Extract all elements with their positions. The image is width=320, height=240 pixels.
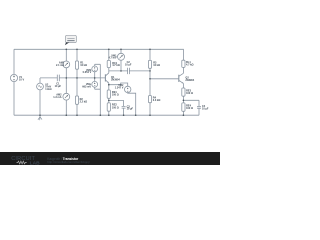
svg-text:10 kΩ: 10 kΩ (153, 64, 160, 67)
svg-text:10 µF: 10 µF (55, 85, 62, 88)
svg-text:1 kHz: 1 kHz (45, 88, 52, 91)
svg-text:100 Ω: 100 Ω (186, 107, 193, 110)
svg-text:LAB: LAB (30, 161, 41, 165)
svg-text:100 Ω: 100 Ω (112, 106, 119, 109)
svg-text:1.347 V: 1.347 V (115, 86, 124, 89)
svg-text:1.3 mA: 1.3 mA (53, 96, 61, 99)
svg-text:2N3904: 2N3904 (111, 79, 120, 82)
svg-text:10 µF: 10 µF (202, 107, 209, 110)
svg-text:10 kΩ: 10 kΩ (80, 64, 87, 67)
svg-text:2.1 mA: 2.1 mA (56, 64, 64, 67)
svg-text:0.654 V: 0.654 V (83, 71, 92, 74)
svg-text:100 Ω: 100 Ω (186, 92, 193, 95)
svg-text:100 Ω: 100 Ω (112, 94, 119, 97)
svg-text:2.2 kΩ: 2.2 kΩ (80, 100, 88, 103)
svg-text:10 µF: 10 µF (125, 63, 132, 66)
svg-text:http://circuitlab.com/c6wz4/kp: http://circuitlab.com/c6wz4/kppjr (47, 160, 90, 164)
svg-text:10 V: 10 V (19, 79, 24, 82)
svg-text:4.7 mV: 4.7 mV (108, 57, 116, 60)
svg-text:10 µF: 10 µF (127, 108, 134, 111)
svg-text:663 mV: 663 mV (82, 85, 91, 88)
svg-text:3.3 kΩ: 3.3 kΩ (153, 99, 161, 102)
svg-text:4.7 kΩ: 4.7 kΩ (112, 64, 120, 67)
svg-text:2N3904: 2N3904 (185, 79, 194, 82)
svg-text:4.7 kΩ: 4.7 kΩ (186, 64, 194, 67)
